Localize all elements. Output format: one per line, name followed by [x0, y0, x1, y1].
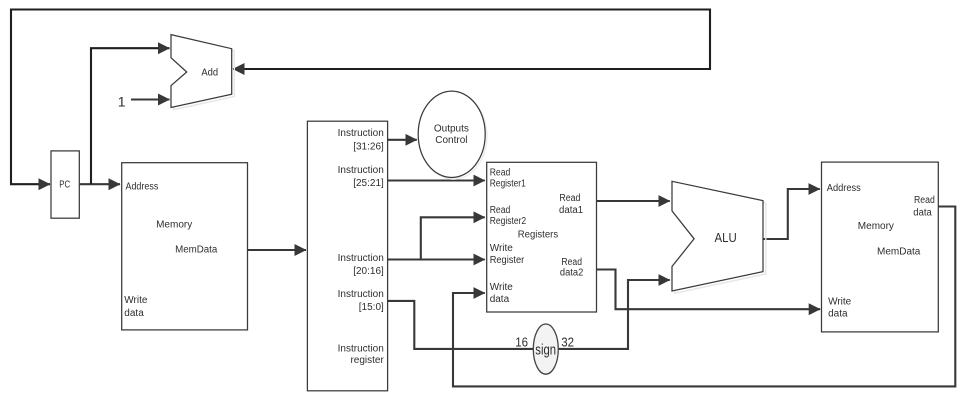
svg-text:16: 16 — [515, 336, 528, 350]
svg-text:data: data — [490, 294, 510, 305]
wire Instruction[25:21] to Read Register1 — [388, 179, 485, 181]
register PC — [51, 151, 79, 218]
svg-text:Read: Read — [490, 205, 511, 216]
svg-text:Memory: Memory — [858, 221, 894, 232]
svg-text:sign: sign — [535, 342, 556, 359]
block Registers — [487, 162, 597, 312]
svg-text:ALU: ALU — [715, 230, 737, 245]
adder Add for PC+1 — [171, 35, 234, 110]
svg-text:Read: Read — [490, 167, 511, 178]
wire data memory Read data around bottom to Registers Write data — [453, 207, 955, 387]
oval sign extend with 16 and 32 bit width labels — [515, 324, 574, 374]
wire PC to instruction memory Address — [79, 183, 120, 185]
svg-text:MemData: MemData — [175, 245, 218, 256]
wire ALU result to data memory Address — [763, 189, 820, 239]
svg-text:Address: Address — [126, 181, 159, 192]
svg-text:PC: PC — [59, 180, 70, 191]
svg-text:Register1: Register1 — [490, 178, 526, 189]
svg-text:Registers: Registers — [518, 230, 558, 241]
wire Instruction[31:26] to Control oval — [388, 139, 417, 141]
svg-text:register: register — [350, 355, 384, 366]
svg-text:Instruction: Instruction — [338, 165, 384, 176]
wire Read data2 to data memory Write data — [596, 270, 820, 310]
wire branch of Instruction[20:16] up to Read Register2 — [421, 217, 485, 260]
oval Control unit — [418, 91, 487, 179]
wire Instruction[20:16] to Write Register — [388, 258, 485, 260]
svg-text:Register2: Register2 — [490, 216, 527, 227]
svg-text:Write: Write — [828, 297, 852, 308]
svg-text:Write: Write — [490, 282, 514, 293]
svg-text:Register: Register — [490, 255, 525, 266]
wire constant 1 to Add lower input — [131, 98, 170, 100]
svg-text:data: data — [828, 308, 848, 319]
svg-text:Read: Read — [559, 193, 580, 204]
svg-text:data: data — [913, 207, 932, 218]
wire PC feedback loop along top, arrow into Add right side and arrow into PC — [11, 10, 710, 185]
svg-text:data: data — [124, 308, 144, 319]
alu ALU — [672, 181, 766, 293]
svg-text:Read: Read — [561, 257, 582, 268]
svg-text:Add: Add — [201, 68, 218, 79]
svg-text:Instruction: Instruction — [338, 344, 384, 355]
block data Memory — [822, 162, 939, 332]
svg-text:Instruction: Instruction — [338, 128, 384, 139]
svg-text:data2: data2 — [560, 268, 584, 279]
wire MemData to Instruction register — [248, 249, 307, 251]
svg-text:[20:16]: [20:16] — [353, 266, 384, 277]
svg-text:Control: Control — [435, 135, 467, 146]
svg-text:Memory: Memory — [156, 219, 192, 230]
wire Read data1 to ALU upper input — [596, 200, 670, 202]
svg-text:Instruction: Instruction — [338, 253, 384, 264]
svg-text:32: 32 — [561, 336, 574, 350]
svg-text:Write: Write — [124, 295, 148, 306]
svg-text:Outputs: Outputs — [434, 123, 469, 134]
svg-text:[25:21]: [25:21] — [353, 178, 384, 189]
wire Instruction[15:0] down through sign extend to ALU lower input — [388, 280, 670, 349]
svg-text:data1: data1 — [559, 205, 584, 216]
block instruction Memory — [122, 163, 248, 330]
wire PC branch up to Add upper input — [91, 48, 170, 184]
svg-text:[15:0]: [15:0] — [359, 302, 384, 313]
svg-text:Address: Address — [827, 183, 861, 194]
svg-text:1: 1 — [118, 93, 126, 109]
svg-text:Read: Read — [914, 195, 935, 206]
svg-text:Write: Write — [490, 243, 514, 254]
svg-text:Instruction: Instruction — [338, 289, 384, 300]
svg-text:MemData: MemData — [877, 246, 921, 257]
svg-text:[31:26]: [31:26] — [353, 141, 384, 152]
block Instruction register — [307, 121, 387, 391]
